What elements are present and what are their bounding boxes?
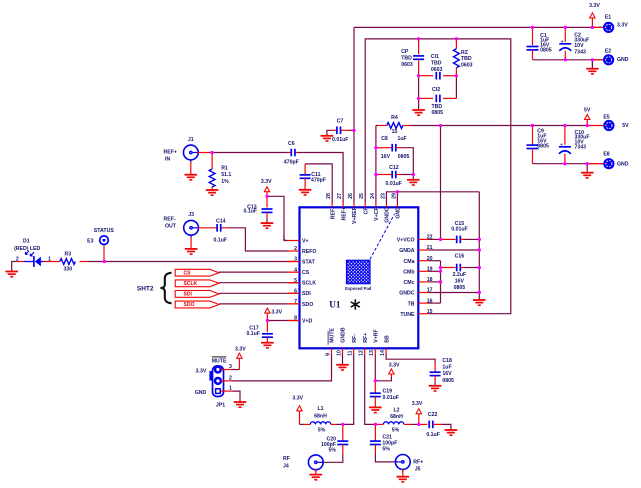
U1 reference designator and asterisk xyxy=(329,299,360,309)
wire net SDO to U1 xyxy=(219,303,300,305)
svg-text:D1: D1 xyxy=(23,239,30,245)
U1 left pin stubs 1-8 xyxy=(288,241,300,321)
svg-text:330: 330 xyxy=(63,266,72,272)
C22 labels xyxy=(426,412,440,438)
JP1 labels xyxy=(195,357,232,409)
svg-text:0.01uF: 0.01uF xyxy=(451,227,467,233)
svg-text:V+CP: V+CP xyxy=(374,207,380,221)
C6 labels xyxy=(284,141,299,166)
CI2 labels xyxy=(432,87,444,116)
resistor R1 xyxy=(209,153,215,190)
svg-text:E2: E2 xyxy=(605,48,611,54)
wire net SDI to U1 xyxy=(219,292,300,294)
capacitor C10 polarized xyxy=(559,126,571,164)
svg-text:10: 10 xyxy=(336,350,342,356)
wire net 3.3V rail xyxy=(354,26,603,29)
U1 right pin names xyxy=(397,238,415,318)
C7 labels xyxy=(332,118,348,143)
wire JP1 pin 1 to ground xyxy=(221,391,241,401)
C11 labels xyxy=(311,172,326,184)
U1 exposed pad xyxy=(296,260,420,291)
ground for J5 xyxy=(397,469,410,482)
svg-text:IN: IN xyxy=(165,156,170,162)
svg-text:C7: C7 xyxy=(337,118,344,124)
resistor RZ xyxy=(454,39,460,76)
wire net REFO from J3 through C14 to U1 pin 2 xyxy=(198,228,288,251)
svg-text:GNDC: GNDC xyxy=(399,291,415,297)
svg-text:C22: C22 xyxy=(428,412,438,418)
svg-text:V+REF: V+REF xyxy=(352,207,358,224)
wire net GNDO from U1 pins 23,29 to ground column xyxy=(386,190,481,299)
svg-text:0805: 0805 xyxy=(537,143,549,149)
svg-text:CP: CP xyxy=(363,207,369,215)
wire net 5V rail from R4 row xyxy=(441,124,604,127)
svg-text:RZ: RZ xyxy=(461,50,469,56)
svg-text:CMc: CMc xyxy=(404,280,415,286)
wire net STAT left segment with LED and R3 xyxy=(12,260,300,271)
svg-text:51.1: 51.1 xyxy=(221,172,231,178)
ground for C12 xyxy=(407,180,420,185)
svg-text:5%: 5% xyxy=(382,446,390,452)
svg-text:SCLK: SCLK xyxy=(184,281,198,287)
svg-text:0.01uF: 0.01uF xyxy=(332,137,348,143)
svg-text:GNDA: GNDA xyxy=(399,248,415,254)
svg-text:2: 2 xyxy=(16,256,19,262)
J5 labels xyxy=(413,459,423,472)
svg-text:STAT: STAT xyxy=(302,259,316,265)
svg-text:E3: E3 xyxy=(87,239,93,245)
svg-text:11: 11 xyxy=(348,350,354,356)
power arrow 3.3V for L1 xyxy=(292,395,303,424)
svg-text:JP1: JP1 xyxy=(216,403,225,409)
svg-text:5%: 5% xyxy=(318,428,326,434)
inductor L1 xyxy=(310,422,330,425)
svg-text:CS: CS xyxy=(302,270,310,276)
svg-text:2.2uF: 2.2uF xyxy=(453,272,467,278)
svg-text:16V: 16V xyxy=(442,371,452,377)
E2 labels xyxy=(605,48,629,63)
svg-text:SDI: SDI xyxy=(302,291,311,297)
svg-text:3.3V: 3.3V xyxy=(412,401,423,407)
C9 labels xyxy=(537,128,549,149)
power arrow 3.3V after L2 xyxy=(412,401,423,424)
svg-text:R4: R4 xyxy=(391,115,398,121)
capacitor CP xyxy=(413,39,424,76)
wire net GNDA U1 pin 21 xyxy=(429,249,480,251)
svg-text:16V: 16V xyxy=(381,154,391,160)
connector J4 RF xyxy=(308,455,323,472)
svg-text:MUTE: MUTE xyxy=(330,327,336,342)
U1 left pin numbers 1-8 xyxy=(283,236,298,322)
signal flag SCLK xyxy=(175,280,219,287)
svg-text:(RED) LED: (RED) LED xyxy=(14,246,40,252)
ground for CP loop filter xyxy=(412,110,425,115)
svg-text:14: 14 xyxy=(380,350,386,356)
wire net GND rail for E8 xyxy=(533,162,604,172)
resistor R3 xyxy=(60,259,76,265)
svg-text:CMb: CMb xyxy=(403,269,414,275)
J1 labels xyxy=(164,137,194,162)
capacitor C22 xyxy=(419,421,451,430)
svg-text:3.3V: 3.3V xyxy=(235,346,246,352)
svg-text:1: 1 xyxy=(48,256,51,262)
svg-text:C19: C19 xyxy=(383,388,393,394)
ground for C22 xyxy=(445,430,458,435)
ground for R1 xyxy=(206,190,219,195)
ground for C13 xyxy=(261,223,274,228)
svg-text:3.3V: 3.3V xyxy=(292,395,303,401)
L1 labels xyxy=(314,406,327,433)
svg-text:16V: 16V xyxy=(455,278,465,284)
signal flag CS xyxy=(175,269,219,276)
svg-text:3.3V: 3.3V xyxy=(196,368,207,374)
svg-text:13: 13 xyxy=(369,350,375,356)
U1 right pin stubs 22-15 xyxy=(418,239,428,313)
svg-text:GNDO: GNDO xyxy=(385,207,391,223)
wire net V+ from 3.3V to U1 pin 1 xyxy=(265,195,287,241)
svg-text:5%: 5% xyxy=(392,428,400,434)
ground for E2 rail xyxy=(586,69,599,74)
R3 labels xyxy=(63,252,72,273)
svg-text:BB: BB xyxy=(384,335,390,343)
inductor L2 xyxy=(383,422,403,425)
J3 labels xyxy=(164,212,195,230)
U1 left pin names xyxy=(302,238,316,324)
svg-text:68nH: 68nH xyxy=(390,414,403,420)
wire JP1 pin 3 to 3.3V xyxy=(221,369,240,371)
svg-text:TBD: TBD xyxy=(432,104,443,110)
svg-text:C14: C14 xyxy=(216,218,226,224)
signal flag SDO xyxy=(175,301,219,308)
svg-text:CP: CP xyxy=(401,49,409,55)
U1 top pin stubs 28,27,26,25,24,23,29 xyxy=(332,203,397,208)
svg-text:+: + xyxy=(560,142,563,147)
wire net BB from U1 pin 14 to C18 xyxy=(386,354,435,363)
ground for J1 xyxy=(185,162,198,180)
svg-text:L2: L2 xyxy=(393,408,399,414)
connector J3 REF- OUT xyxy=(184,220,199,237)
E1 labels xyxy=(605,14,628,28)
svg-text:+: + xyxy=(561,39,564,44)
svg-text:RF: RF xyxy=(283,456,290,462)
svg-text:24: 24 xyxy=(370,193,376,199)
svg-text:0.1uF: 0.1uF xyxy=(426,432,440,438)
capacitor C6 xyxy=(291,149,295,157)
capacitor C15 xyxy=(441,236,480,244)
SHT2 label and brace xyxy=(137,273,172,303)
svg-text:0805: 0805 xyxy=(540,48,552,54)
svg-text:25: 25 xyxy=(359,193,365,199)
svg-text:0805: 0805 xyxy=(442,378,454,384)
svg-text:REFO: REFO xyxy=(302,249,316,255)
wire net GND rail for E2 xyxy=(533,58,604,68)
svg-text:3.3V: 3.3V xyxy=(389,362,400,368)
svg-text:RF-: RF- xyxy=(352,334,358,343)
C20 labels xyxy=(321,437,336,454)
power arrow 5V xyxy=(584,107,591,125)
wire net V+CP vertical U1 pin 24 xyxy=(374,126,377,203)
svg-text:0.01uF: 0.01uF xyxy=(383,395,399,401)
svg-text:GND: GND xyxy=(617,57,629,63)
svg-text:29: 29 xyxy=(391,193,397,199)
C21 labels xyxy=(382,434,397,452)
signal flag SDI xyxy=(175,291,219,298)
svg-text:0.01uF: 0.01uF xyxy=(386,181,402,187)
svg-text:1uF: 1uF xyxy=(398,136,407,142)
CI1 labels xyxy=(431,54,443,73)
svg-text:2: 2 xyxy=(294,246,297,252)
svg-text:0805: 0805 xyxy=(454,285,466,291)
capacitor CI1 xyxy=(436,72,440,80)
svg-text:REF+: REF+ xyxy=(341,207,347,220)
wire node CI2 row xyxy=(417,97,456,110)
power arrow 3.3V for U1 V+D xyxy=(265,308,283,320)
svg-text:0.1uF: 0.1uF xyxy=(214,237,228,243)
svg-text:REF-: REF- xyxy=(330,207,336,219)
svg-text:GND: GND xyxy=(195,390,207,396)
wire node BB filter after L2 xyxy=(404,423,421,426)
svg-text:J3: J3 xyxy=(188,212,194,218)
svg-text:1uF: 1uF xyxy=(442,364,451,370)
capacitor C7 xyxy=(327,127,354,136)
C15 labels xyxy=(451,221,467,233)
C12 labels xyxy=(386,165,402,187)
svg-text:E1: E1 xyxy=(605,14,611,20)
resistor R4 xyxy=(376,123,441,129)
ground for J4 xyxy=(310,469,323,480)
ground for U1 pin 10 GNDB xyxy=(336,354,349,370)
svg-text:1%: 1% xyxy=(221,179,229,185)
capacitor C2 polarized xyxy=(559,27,571,59)
svg-text:TB: TB xyxy=(408,301,415,307)
svg-text:R1: R1 xyxy=(221,165,228,171)
jumper JP1 xyxy=(209,366,223,397)
op-amp U1 PLL IC body xyxy=(300,207,419,348)
svg-text:C18: C18 xyxy=(442,358,452,364)
capacitor C1 xyxy=(527,27,539,59)
wire net V+RF xyxy=(374,354,392,393)
svg-text:C8: C8 xyxy=(381,136,388,142)
svg-text:E5: E5 xyxy=(603,115,609,121)
svg-text:3.3V: 3.3V xyxy=(271,310,282,316)
svg-text:7343: 7343 xyxy=(575,144,587,150)
wire net REF- from C11 to U1 pin 28 xyxy=(305,164,332,203)
junction dots overlay xyxy=(103,26,594,426)
L2 labels xyxy=(390,408,403,434)
svg-text:0805: 0805 xyxy=(432,110,444,116)
svg-text:RF+: RF+ xyxy=(413,459,423,465)
svg-text:L1: L1 xyxy=(317,406,323,412)
svg-text:J4: J4 xyxy=(283,463,289,469)
svg-text:470pF: 470pF xyxy=(284,159,299,165)
svg-text:TBD: TBD xyxy=(431,61,442,67)
svg-text:C12: C12 xyxy=(389,165,399,171)
terminal E1 3.3V xyxy=(603,22,614,33)
wire net V+D xyxy=(266,319,300,322)
power arrow 3.3V for U1 V+RF xyxy=(389,362,400,377)
ground for JP1 xyxy=(234,402,247,407)
connector J1 REF+ IN xyxy=(183,145,198,162)
diode D1 red LED xyxy=(24,251,44,267)
capacitor C18 xyxy=(430,363,441,385)
C14 labels xyxy=(214,218,228,243)
wire node CI1 row xyxy=(417,74,458,98)
R1 labels xyxy=(221,165,231,185)
U1 right pin numbers 22-15 xyxy=(427,235,433,315)
C17 labels xyxy=(246,325,260,337)
svg-text:SHT2: SHT2 xyxy=(137,285,154,292)
ground for C11 xyxy=(299,190,312,195)
C8 labels xyxy=(381,136,410,160)
svg-text:5V: 5V xyxy=(622,123,629,129)
svg-text:26: 26 xyxy=(348,193,354,199)
U1 bottom pin numbers xyxy=(325,350,386,356)
C13 labels xyxy=(244,204,258,214)
C1 labels xyxy=(540,33,552,54)
svg-text:V+VCO: V+VCO xyxy=(397,238,415,244)
wire net RF+ from U1 pin 12 to C21 and L2 xyxy=(365,354,384,426)
svg-text:3.3V: 3.3V xyxy=(261,179,272,185)
svg-text:3.3V: 3.3V xyxy=(589,3,600,9)
ground for J3 xyxy=(185,237,198,254)
svg-text:C21: C21 xyxy=(382,434,392,440)
svg-text:REF+: REF+ xyxy=(164,149,177,155)
svg-text:68nH: 68nH xyxy=(314,414,327,420)
svg-text:J5: J5 xyxy=(415,466,421,472)
svg-text:R3: R3 xyxy=(64,252,71,258)
U1 top pin numbers xyxy=(326,193,397,199)
capacitor CI2 xyxy=(436,95,440,103)
ground for GNDO column xyxy=(473,300,486,305)
ground for C7 xyxy=(321,136,334,141)
svg-text:0.1uF: 0.1uF xyxy=(244,209,258,215)
capacitor C8 xyxy=(376,144,413,175)
svg-text:C16: C16 xyxy=(455,254,465,260)
svg-text:CMa: CMa xyxy=(404,259,415,265)
svg-text:SCLK: SCLK xyxy=(302,281,316,287)
svg-text:Exposed Pad: Exposed Pad xyxy=(345,286,372,291)
capacitor C9 xyxy=(527,126,539,164)
svg-text:V+D: V+D xyxy=(302,318,312,324)
svg-text:CI2: CI2 xyxy=(432,87,440,93)
E8 labels xyxy=(603,151,628,167)
svg-text:TUNE: TUNE xyxy=(400,312,415,318)
svg-text:0.1uF: 0.1uF xyxy=(246,331,260,337)
svg-text:7343: 7343 xyxy=(574,49,586,55)
U1 exposed pad dashed leader line xyxy=(370,214,395,259)
terminal E5 5V xyxy=(603,120,614,131)
svg-text:REF-: REF- xyxy=(164,217,176,223)
svg-text:CI1: CI1 xyxy=(431,54,439,60)
CP labels xyxy=(401,49,413,68)
ground for D1 xyxy=(5,272,18,277)
ground for C17 xyxy=(261,343,274,348)
C18 labels xyxy=(442,358,454,384)
R4 labels xyxy=(391,115,398,135)
C2 labels xyxy=(574,32,589,55)
svg-text:CS: CS xyxy=(184,270,192,276)
svg-text:10V: 10V xyxy=(574,43,584,49)
svg-text:STATUS: STATUS xyxy=(94,228,115,234)
wire net RF- from U1 pin 11 to L1 and C20 xyxy=(300,354,354,426)
svg-text:1: 1 xyxy=(229,385,232,391)
power arrow 3.3V rail xyxy=(589,3,600,27)
wire net V+REF vertical from 3.3V rail to U1 pin 26 xyxy=(352,27,355,202)
J4 labels xyxy=(283,456,290,470)
capacitor C21 xyxy=(370,424,396,462)
svg-text:0603: 0603 xyxy=(431,67,443,73)
terminal E2 GND xyxy=(603,54,614,65)
svg-text:C6: C6 xyxy=(288,141,295,147)
D1 labels xyxy=(14,239,51,263)
terminal E8 GND xyxy=(603,158,614,169)
svg-text:J1: J1 xyxy=(188,137,194,143)
wire net SCLK to U1 xyxy=(219,282,300,284)
ground for C18 xyxy=(429,386,442,391)
svg-text:0603: 0603 xyxy=(461,62,473,68)
U1 bottom pin names xyxy=(328,327,390,345)
capacitor C16 xyxy=(441,264,480,272)
capacitor C14 xyxy=(217,224,221,232)
capacitor C17 xyxy=(262,321,273,343)
svg-text:SDO: SDO xyxy=(184,302,195,308)
capacitor C19 xyxy=(370,393,381,407)
wire net MUTE from JP1 pin 2 to U1 pin 9 xyxy=(221,354,332,381)
svg-text:U1: U1 xyxy=(329,300,341,310)
wire net REF+ from J1 through C6 to U1 pin 27 xyxy=(197,151,343,203)
wire net GNDC U1 pin 17 xyxy=(429,292,480,294)
RZ labels xyxy=(461,50,473,69)
svg-text:TBD: TBD xyxy=(401,56,412,62)
ground for E8 rail xyxy=(581,173,594,178)
svg-text:470pF: 470pF xyxy=(311,178,326,184)
svg-text:V+RF: V+RF xyxy=(373,329,379,342)
wire net CP loop filter rectangle and TUNE xyxy=(365,37,511,313)
E3 labels xyxy=(87,228,114,245)
svg-text:SDO: SDO xyxy=(302,302,313,308)
capacitor C20 xyxy=(323,424,349,462)
svg-text:0805: 0805 xyxy=(398,154,410,160)
C10 labels xyxy=(575,130,590,150)
svg-text:GND: GND xyxy=(617,161,629,167)
power arrow 3.3V for C13 and U1 V+ xyxy=(261,179,272,197)
capacitor C12 xyxy=(376,171,415,180)
svg-text:V+: V+ xyxy=(302,238,309,244)
capacitor C13 xyxy=(262,196,273,222)
svg-text:OUT: OUT xyxy=(165,224,177,230)
U1 bottom pin stubs 9-14 xyxy=(332,348,387,354)
svg-text:TBD: TBD xyxy=(461,56,472,62)
terminal E3 STATUS xyxy=(100,236,109,262)
svg-text:5V: 5V xyxy=(584,107,591,113)
C16 labels xyxy=(453,254,467,292)
power arrow 3.3V for JP1 pin 3 xyxy=(235,346,246,369)
wire net CS to U1 xyxy=(219,271,300,273)
svg-text:15: 15 xyxy=(392,129,398,135)
svg-text:12: 12 xyxy=(359,350,365,356)
svg-text:RF+: RF+ xyxy=(363,333,369,343)
U1 top pin names xyxy=(330,207,401,224)
svg-text:MUTE: MUTE xyxy=(212,359,227,365)
svg-text:23: 23 xyxy=(380,193,386,199)
capacitor C11 xyxy=(300,164,311,189)
svg-text:0603: 0603 xyxy=(401,62,413,68)
wire net V+VCO from R4 row to U1 pin 22 xyxy=(429,124,443,241)
svg-text:27: 27 xyxy=(337,193,343,199)
connector J5 RF+ xyxy=(395,455,410,472)
svg-text:SDI: SDI xyxy=(184,292,193,298)
svg-text:E8: E8 xyxy=(603,151,609,157)
